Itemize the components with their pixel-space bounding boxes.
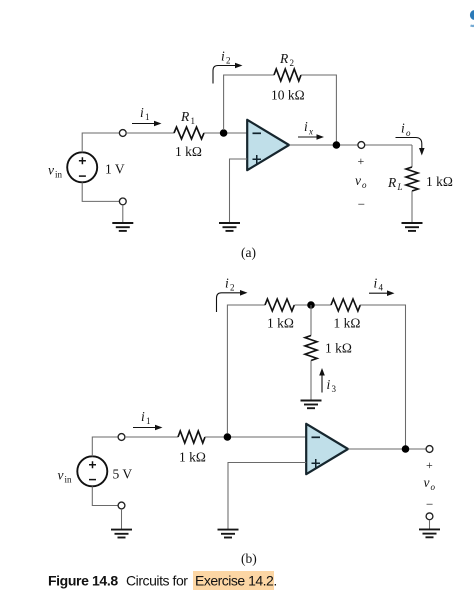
op-amp U2 minus sign [312,436,321,438]
resistor R2 [274,69,301,81]
resistor Rb feedback right (b) [331,299,360,311]
ground op-amp (a) [219,223,240,231]
current arrow i3 (b) [319,368,325,393]
wire R to op-amp input (b) [205,436,306,438]
resistor RL [406,167,418,191]
svg-text:4: 4 [379,283,384,293]
wire Ra to Rb with node (b) [295,304,332,306]
svg-text:Circuits for: Circuits for [126,573,188,589]
output terminal (b) [426,446,433,453]
wire R1 to op-amp input [204,132,247,134]
svg-text:L: L [397,182,403,192]
wire noninverting input to ground (b) [228,463,306,530]
svg-text:(b): (b) [241,551,257,566]
svg-text:1 kΩ: 1 kΩ [325,341,352,356]
output node dot (b) [402,445,410,453]
svg-text:1 kΩ: 1 kΩ [175,144,202,159]
wire lower terminal to ground (a) [122,205,124,223]
wire node to Rc vertical (b) [310,305,312,336]
svg-text:i: i [225,276,229,291]
svg-text:i: i [304,119,308,134]
svg-text:i: i [327,377,331,392]
resistor Ra feedback left (b) [265,299,294,311]
svg-text:1 kΩ: 1 kΩ [426,174,453,189]
svg-text:x: x [308,127,313,137]
svg-text:R: R [387,175,397,190]
svg-text:1 kΩ: 1 kΩ [267,316,294,331]
svg-text:1: 1 [146,416,151,426]
caption highlight Exercise 14.2 [193,571,274,590]
wire RL to ground [411,191,413,223]
wire noninverting input to ground (a) [230,159,248,223]
svg-text:1: 1 [145,112,150,122]
svg-text:in: in [55,170,63,180]
resistor R1 [174,127,204,139]
svg-text:−: − [426,497,433,512]
node feedback middle dot (b) [307,301,315,309]
wire Rc to ground (b) [310,361,312,401]
ground Rc (b) [301,401,322,409]
ground source (b) [111,530,132,538]
wire source bottom to lower terminal (a) [82,182,119,201]
op-amp U2 plus sign [312,459,321,468]
current arrow i1 (b) [133,425,163,431]
svg-text:i: i [140,105,144,120]
current arrow ix [298,134,324,140]
op-amp U1 triangle (a) [247,120,289,170]
wire feedback up and across (a) [224,75,274,130]
svg-text:2: 2 [230,283,235,293]
svg-text:Exercise 14.2.: Exercise 14.2. [195,573,277,589]
wire feedback right vertical (b) [360,305,406,449]
svg-text:i: i [374,276,378,291]
ground RL (a) [402,223,423,231]
op-amp U2 triangle (b) [306,424,348,474]
svg-text:R: R [180,109,190,124]
svg-text:Figure 14.8: Figure 14.8 [48,573,118,589]
current arrow io [396,138,425,156]
node A inverting input dot (a) [220,129,228,137]
wire terminal to R (b) [125,436,178,438]
op-amp U1 plus sign [253,155,262,164]
output node dot (a) [333,141,341,149]
svg-text:+: + [358,154,365,168]
resistor Rc vertical (b) [305,336,317,361]
svg-text:in: in [65,475,73,485]
svg-text:1 V: 1 V [105,162,125,177]
svg-text:2: 2 [290,58,295,68]
current arrow i2 (a) [213,63,243,84]
wire source bottom to lower terminal (b) [92,486,118,505]
svg-text:o: o [362,180,367,190]
wire lower terminal to ground (b) [121,509,123,530]
resistor R input (b) [178,431,205,443]
svg-text:10 kΩ: 10 kΩ [271,88,305,103]
svg-text:v: v [355,173,361,188]
svg-text:R: R [279,51,289,66]
svg-text:i: i [221,49,225,64]
ground source (a) [112,223,133,231]
wire source top to input terminal (b) [92,437,118,456]
op-amp U1 minus sign [253,132,262,134]
svg-text:5 V: 5 V [113,467,133,482]
svg-text:i: i [141,409,145,424]
svg-text:2: 2 [226,56,231,66]
voltage source Vin 1V [67,152,97,182]
lower terminal (b) [118,502,125,509]
ground output (b) [419,529,440,537]
svg-text:1: 1 [191,116,196,126]
svg-text:3: 3 [332,384,337,394]
node inverting input dot (b) [224,433,232,441]
svg-text:+: + [426,458,433,472]
wire op-amp output (a) [289,144,412,146]
input terminal (b) [118,434,125,441]
ground op-amp (b) [218,530,239,538]
input terminal (a) [119,130,126,137]
wire feedback left vertical (b) [227,305,265,434]
svg-text:v: v [424,475,430,490]
svg-text:i: i [401,121,405,136]
svg-text:v: v [58,468,64,483]
wire terminal to R1 [126,132,174,134]
wire lower output terminal to ground (b) [429,520,431,530]
lower terminal (a) [119,198,126,205]
svg-text:(a): (a) [241,245,256,260]
voltage source Vin 5V [77,456,107,486]
current arrow i1 (a) [132,121,162,127]
output terminal (a) [358,142,365,149]
wire feedback down to output (a) [301,75,336,145]
current arrow i2 (b) [217,290,248,312]
wire op-amp output (b) [348,448,426,450]
svg-text:1 kΩ: 1 kΩ [334,316,361,331]
wire output to RL [411,145,413,167]
wire source top to input terminal (a) [82,133,119,152]
svg-text:v: v [48,163,54,178]
svg-text:o: o [406,128,411,138]
svg-text:−: − [358,197,365,212]
current arrow i4 (b) [369,290,395,296]
svg-text:1 kΩ: 1 kΩ [179,450,206,465]
lower output terminal (b) [426,513,433,520]
page-number fragment top right [470,10,474,26]
svg-text:o: o [431,482,436,492]
